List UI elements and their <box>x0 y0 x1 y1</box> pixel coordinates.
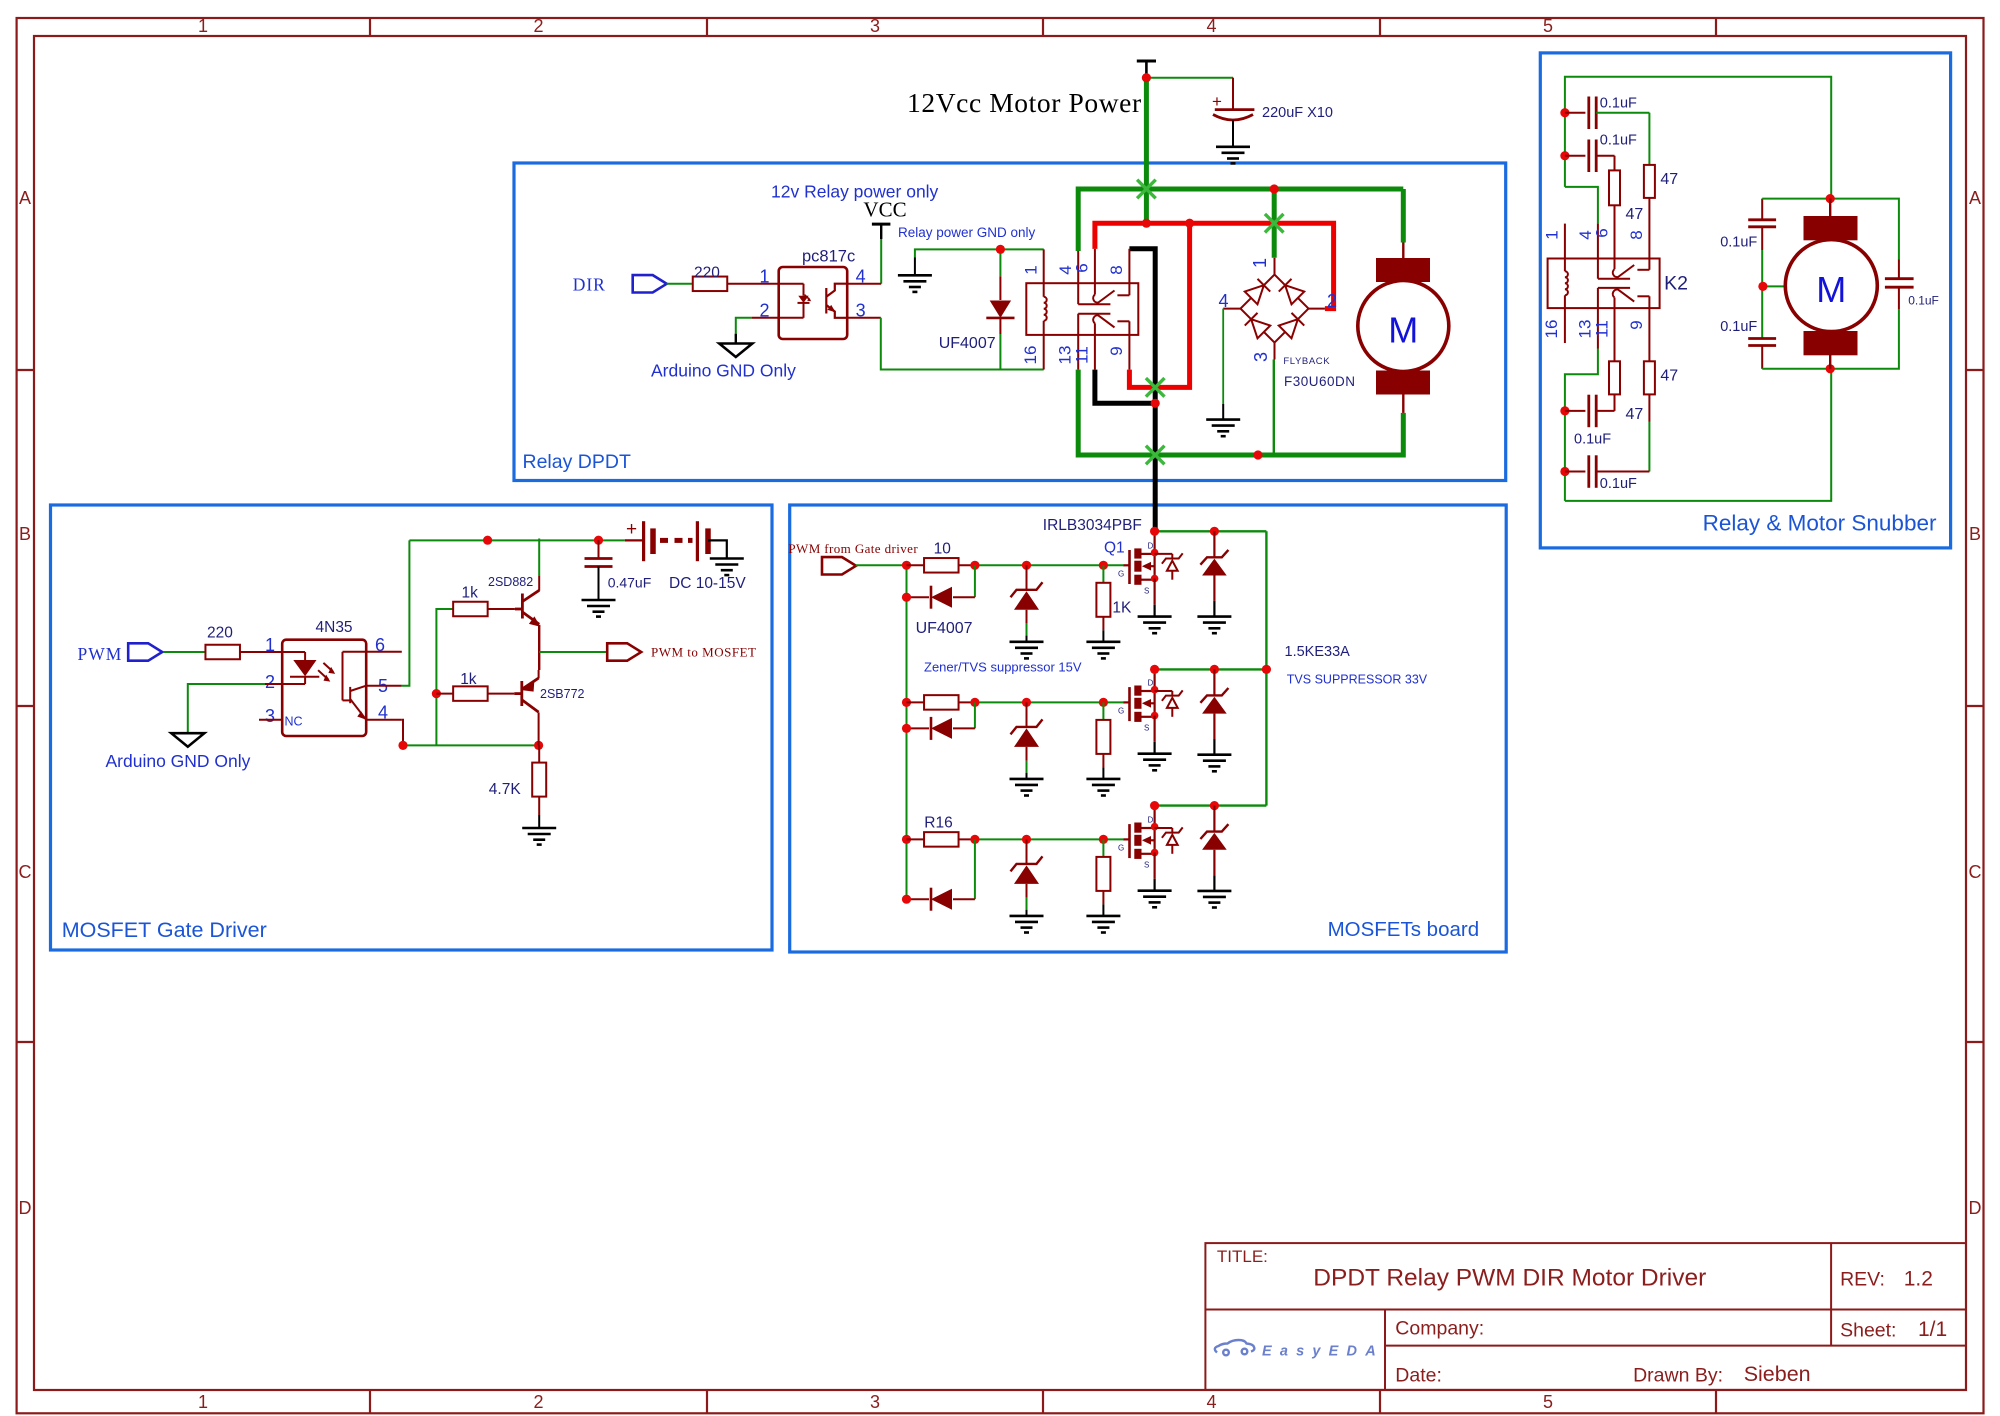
svg-text:G: G <box>1118 569 1124 578</box>
ground (earth) zener stage1 <box>1010 642 1044 659</box>
capacitor 0.1uF s4 <box>1565 471 1586 473</box>
svg-text:12v Relay power only: 12v Relay power only <box>771 182 939 202</box>
junction snubber cap2 <box>1560 151 1569 160</box>
junction red branch <box>1185 219 1194 228</box>
svg-text:1.2: 1.2 <box>1904 1268 1933 1291</box>
resistor 4.7K <box>532 763 546 797</box>
svg-text:DC 10-15V: DC 10-15V <box>669 575 746 592</box>
svg-text:16: 16 <box>1021 346 1040 365</box>
resistor 47 r2 <box>1648 113 1650 165</box>
crossing marker X (12V bus over rail) <box>1137 180 1156 199</box>
crossing marker X (black over red) <box>1146 378 1165 397</box>
capacitor 0.1uF motor-left-bottom <box>1748 337 1776 340</box>
MOSFET Q1 IRLB3034PBF <box>1123 548 1154 584</box>
junction 1K tap stage2 <box>1099 698 1108 707</box>
wire bus to 1k lower <box>436 693 452 695</box>
svg-text:S: S <box>1144 860 1149 869</box>
svg-text:1: 1 <box>1250 258 1270 268</box>
svg-text:2: 2 <box>1327 291 1337 311</box>
svg-text:1: 1 <box>1022 265 1041 274</box>
svg-text:Company:: Company: <box>1395 1318 1484 1340</box>
junction drain row stage3 <box>1150 801 1159 810</box>
svg-text:PWM from Gate driver: PWM from Gate driver <box>788 541 918 556</box>
ground (earth) source stage1 <box>1138 617 1172 634</box>
svg-text:Sheet:: Sheet: <box>1840 1320 1896 1342</box>
wire bottom motor rail (thick green) <box>1078 370 1403 455</box>
svg-text:0.1uF: 0.1uF <box>1574 432 1611 448</box>
MOSFET Q2 IRLB3034PBF <box>1123 686 1154 722</box>
svg-text:PWM to MOSFET: PWM to MOSFET <box>651 645 756 660</box>
svg-text:5: 5 <box>1543 16 1553 36</box>
svg-text:DIR: DIR <box>573 275 606 295</box>
wire 4N35 pin2 to Arduino GND <box>265 683 282 685</box>
resistor 47 r4 <box>1648 308 1650 361</box>
zener/TVS 15V stage3 <box>1026 839 1028 864</box>
svg-text:220uF X10: 220uF X10 <box>1262 105 1333 121</box>
svg-text:1: 1 <box>198 1392 208 1412</box>
svg-text:A: A <box>19 188 31 208</box>
svg-text:0.1uF: 0.1uF <box>1720 235 1757 251</box>
junction TVS tap stage2 <box>1210 665 1219 674</box>
wire 2SB772 collector down <box>538 712 540 745</box>
wire 1k upper to base <box>488 608 515 610</box>
motor M2 frame wires <box>1761 199 1763 220</box>
svg-text:1/1: 1/1 <box>1918 1318 1947 1341</box>
junction red/green 12V <box>1142 219 1151 228</box>
capacitor 0.47uF <box>598 540 600 558</box>
svg-text:PWM: PWM <box>78 644 123 664</box>
junction zener tap stage2 <box>1022 698 1031 707</box>
svg-text:3: 3 <box>870 16 880 36</box>
relay K2 (snubber) <box>1548 259 1660 309</box>
junction drain bus <box>1262 665 1271 674</box>
svg-text:2: 2 <box>533 16 543 36</box>
diode UF4007 (relay coil) <box>999 249 1001 276</box>
wire DIR to resistor <box>667 283 693 285</box>
ground (arrow) Arduino GND 2 <box>171 733 204 747</box>
battery DC 10-15V <box>625 539 644 541</box>
wire source to ground stage3 <box>1153 853 1155 879</box>
body diode stage3 <box>1155 827 1183 853</box>
ground (earth) 4.7K <box>522 828 556 845</box>
junction bottom rail <box>1253 450 1262 459</box>
junction gate bus stage2 <box>902 698 911 707</box>
crossing marker X (black over bottom rail) <box>1146 446 1165 465</box>
resistor 47 r3 <box>1614 308 1616 361</box>
svg-text:3: 3 <box>1251 352 1271 362</box>
wire drain row stage1 <box>1155 530 1267 532</box>
junction gate bus stage3 <box>902 835 911 844</box>
body diode stage1 <box>1155 553 1183 579</box>
TVS diode 1.5KE33A stage3 <box>1213 806 1215 832</box>
svg-text:4: 4 <box>1206 16 1216 36</box>
svg-text:TITLE:: TITLE: <box>1217 1247 1268 1266</box>
svg-text:4: 4 <box>1218 291 1228 311</box>
wire relay power ground rail <box>915 249 1044 257</box>
wire snubber bottom rail <box>1565 369 1831 501</box>
svg-text:0.47uF: 0.47uF <box>608 575 652 591</box>
svg-text:+: + <box>626 519 637 540</box>
svg-text:Q1: Q1 <box>1104 540 1125 557</box>
svg-text:Relay DPDT: Relay DPDT <box>523 451 631 473</box>
wire output node <box>538 625 540 670</box>
svg-text:0.1uF: 0.1uF <box>1720 319 1757 335</box>
capacitor 220uF X10 <box>1232 78 1234 110</box>
svg-text:4N35: 4N35 <box>316 619 353 636</box>
svg-text:8: 8 <box>1107 265 1126 274</box>
svg-text:1: 1 <box>759 267 769 287</box>
svg-text:B: B <box>19 524 31 544</box>
wire drain bus (right vertical) <box>1265 531 1267 805</box>
wire bridge pin3 to bottom rail <box>1273 360 1275 456</box>
junction rail stray <box>483 536 492 545</box>
svg-text:4.7K: 4.7K <box>489 781 522 798</box>
svg-text:D: D <box>1148 678 1154 687</box>
svg-text:16: 16 <box>1542 320 1561 339</box>
wire 4N35 pin6 stub <box>366 651 402 653</box>
resistor 1K stage2 <box>1102 702 1104 720</box>
wire bridge pin4 to ground <box>1222 309 1224 404</box>
svg-text:K2: K2 <box>1664 273 1688 295</box>
svg-text:Zener/TVS suppressor 15V: Zener/TVS suppressor 15V <box>924 660 1082 675</box>
junction base bus <box>432 689 441 698</box>
svg-text:9: 9 <box>1627 320 1646 329</box>
svg-text:11: 11 <box>1593 320 1612 338</box>
junction diode bus stage1 <box>902 593 911 602</box>
junction TVS tap stage3 <box>1210 801 1219 810</box>
wire 12V bus (thick, down into Relay DPDT) <box>1144 78 1149 224</box>
wire diode bypass stage3 <box>974 839 976 899</box>
svg-text:1: 1 <box>1543 230 1562 239</box>
section box MOSFETs board <box>790 505 1506 952</box>
resistor 1K stage1 <box>1102 565 1104 583</box>
power flag 12Vcc (bar symbol) <box>1137 60 1156 63</box>
svg-text:D: D <box>19 1198 32 1218</box>
resistor gate stage3 R16 <box>907 838 925 840</box>
junction motor2 case <box>1758 282 1767 291</box>
junction snubber cap4 <box>1560 467 1569 476</box>
ground (earth) source stage2 <box>1138 754 1172 771</box>
section box Relay DPDT <box>514 163 1506 481</box>
junction TVS tap stage1 <box>1210 527 1219 536</box>
junction bottom rail right <box>534 741 543 750</box>
optocoupler U pc817c <box>779 267 848 339</box>
body diode stage2 <box>1155 690 1183 716</box>
svg-text:+: + <box>1212 92 1222 111</box>
svg-text:47: 47 <box>1660 171 1678 188</box>
svg-text:IRLB3034PBF: IRLB3034PBF <box>1043 517 1142 534</box>
junction source node stage1 <box>1151 575 1159 583</box>
wire output to flag <box>539 651 607 653</box>
diode UF4007 stage1 <box>907 596 930 598</box>
svg-text:4: 4 <box>1206 1392 1216 1412</box>
junction 1K tap stage1 <box>1099 561 1108 570</box>
wire 4.7K to ground <box>538 796 540 815</box>
svg-text:DPDT Relay PWM DIR Motor Drive: DPDT Relay PWM DIR Motor Driver <box>1313 1265 1706 1292</box>
wire gate row stage3 <box>975 838 1123 840</box>
transistor 2SD882 (NPN) <box>515 590 539 624</box>
wire drain pin stage2 <box>1153 669 1155 689</box>
ground (earth) source stage3 <box>1138 891 1172 908</box>
wire base bus (green vertical) <box>436 609 452 745</box>
wire driver bottom rail <box>403 744 539 746</box>
wire 1k lower to base <box>488 693 514 695</box>
svg-text:1: 1 <box>265 635 275 655</box>
junction motor2 top <box>1826 194 1835 203</box>
wire black branch pin11 (thick black) <box>1095 370 1155 404</box>
junction resistor out stage3 <box>970 835 979 844</box>
svg-text:1: 1 <box>198 16 208 36</box>
relay K1 (DPDT) <box>1026 283 1138 335</box>
svg-text:D: D <box>1148 541 1154 550</box>
svg-text:0.1uF: 0.1uF <box>1908 294 1939 308</box>
wire gate bus (left vertical) <box>906 565 908 899</box>
svg-text:0.1uF: 0.1uF <box>1600 133 1637 149</box>
wire motor2 case pin <box>1763 285 1785 287</box>
svg-text:12Vcc Motor Power: 12Vcc Motor Power <box>907 87 1142 118</box>
svg-text:Arduino GND Only: Arduino GND Only <box>106 751 251 771</box>
svg-text:5: 5 <box>1543 1392 1553 1412</box>
junction zener tap stage1 <box>1022 561 1031 570</box>
svg-text:2: 2 <box>533 1392 543 1412</box>
svg-text:47: 47 <box>1660 368 1678 385</box>
svg-text:D: D <box>1969 1198 1982 1218</box>
ground (earth) for 220uF <box>1216 147 1250 164</box>
wire snubber relay pin13 to bottom bus <box>1565 349 1598 501</box>
section box Relay & Motor Snubber <box>1540 53 1950 548</box>
svg-text:UF4007: UF4007 <box>916 620 973 637</box>
junction UF4007 anode <box>996 245 1005 254</box>
junction drain node stage2 <box>1151 686 1159 694</box>
svg-text:M: M <box>1388 310 1418 351</box>
wire pc817c pin2 to Arduino GND <box>752 317 779 319</box>
junction snubber cap3 <box>1560 406 1569 415</box>
svg-text:Arduino GND Only: Arduino GND Only <box>651 361 796 381</box>
svg-text:2SD882: 2SD882 <box>488 575 533 589</box>
svg-text:10: 10 <box>934 541 952 558</box>
motor M1 <box>1402 243 1404 259</box>
resistor gate stage2 <box>907 701 925 703</box>
svg-text:UF4007: UF4007 <box>939 335 996 352</box>
wire VCC to pc817c pin4 <box>880 239 882 284</box>
wire pc817c pin4 <box>847 283 881 285</box>
svg-text:1.5KE33A: 1.5KE33A <box>1285 644 1351 660</box>
resistor 220 (DIR) <box>693 277 728 292</box>
svg-text:M: M <box>1816 269 1846 310</box>
MOSFET Q3 IRLB3034PBF <box>1123 823 1154 859</box>
wire drain row stage2 <box>1155 668 1267 670</box>
ground (earth) zener stage3 <box>1010 916 1044 933</box>
transistor 2SB772 (PNP) <box>514 678 538 712</box>
svg-text:220: 220 <box>694 265 720 282</box>
svg-text:0.1uF: 0.1uF <box>1600 96 1637 112</box>
ground (arrow) Arduino GND <box>719 344 752 358</box>
svg-text:B: B <box>1969 524 1981 544</box>
ground (earth) battery <box>710 559 744 576</box>
wire gate row stage1 <box>975 564 1123 566</box>
junction diode bus stage3 <box>902 895 911 904</box>
junction 1K tap stage3 <box>1099 835 1108 844</box>
junction resistor out stage2 <box>970 698 979 707</box>
wire snubber to relay pin4 <box>1565 187 1598 224</box>
ground (earth) zener stage2 <box>1010 779 1044 796</box>
flag PWM from Gate driver <box>822 557 856 574</box>
ground (earth) bridge <box>1206 420 1240 437</box>
capacitor 0.1uF s2 <box>1565 155 1586 157</box>
motor M2 <box>1829 199 1831 217</box>
svg-text:6: 6 <box>1073 263 1092 272</box>
ground (earth) 1K stage2 <box>1086 779 1120 796</box>
svg-text:R16: R16 <box>924 815 952 832</box>
svg-text:Drawn By:: Drawn By: <box>1633 1365 1723 1387</box>
wire black net pin8 (thick black) <box>1129 249 1155 532</box>
svg-text:G: G <box>1118 706 1124 715</box>
svg-text:MOSFET Gate Driver: MOSFET Gate Driver <box>62 918 267 942</box>
wire PWM to resistor <box>163 651 205 653</box>
ground (earth) 1K stage3 <box>1086 916 1120 933</box>
svg-text:S: S <box>1144 586 1149 595</box>
svg-text:1k: 1k <box>460 671 477 688</box>
wire resistor to 4N35 pin1 <box>240 651 282 653</box>
junction diode bus stage2 <box>902 724 911 733</box>
diode UF4007 stage2 <box>907 727 930 729</box>
junction rail cap <box>594 536 603 545</box>
junction drain node stage1 <box>1151 549 1159 557</box>
svg-text:3: 3 <box>870 1392 880 1412</box>
bridge rectifier F30U60DN <box>1223 258 1325 360</box>
wire 4N35 pin4 down <box>366 719 402 721</box>
capacitor 0.1uF s1 <box>1565 112 1586 114</box>
svg-text:Relay power GND only: Relay power GND only <box>898 225 1036 240</box>
svg-text:TVS SUPPRESSOR 33V: TVS SUPPRESSOR 33V <box>1287 673 1428 687</box>
ground (earth) TVS stage2 <box>1197 755 1231 772</box>
resistor 1K stage3 <box>1102 839 1104 857</box>
svg-text:G: G <box>1118 843 1124 852</box>
wire collector node to 4.7K <box>538 745 540 763</box>
wire 12V rail (thick green horizontal) <box>1078 187 1403 192</box>
svg-text:MOSFETs board: MOSFETs board <box>1328 918 1480 941</box>
junction bottom rail left <box>398 741 407 750</box>
junction drain row stage1 <box>1150 527 1159 536</box>
wire 4N35 pin5 to rail <box>366 685 402 687</box>
wire drain pin stage1 <box>1153 531 1155 552</box>
junction resistor out stage1 <box>970 561 979 570</box>
svg-text:6: 6 <box>1593 228 1612 237</box>
wire drain row stage3 <box>1155 804 1267 806</box>
svg-text:8: 8 <box>1627 230 1646 239</box>
wire gate row stage2 <box>975 701 1123 703</box>
resistor 1k lower <box>453 686 488 701</box>
section box MOSFET Gate Driver <box>51 505 773 950</box>
wire input flag to bus <box>856 564 907 566</box>
svg-text:S: S <box>1144 723 1149 732</box>
svg-text:Sieben: Sieben <box>1744 1362 1811 1386</box>
svg-text:C: C <box>19 862 32 882</box>
optocoupler 4N35 <box>282 640 366 736</box>
svg-text:3: 3 <box>265 706 275 726</box>
svg-text:D: D <box>1148 815 1154 824</box>
svg-text:Relay & Motor Snubber: Relay & Motor Snubber <box>1703 511 1937 536</box>
svg-text:0.1uF: 0.1uF <box>1600 476 1637 492</box>
resistor 47 r1 <box>1614 156 1616 171</box>
svg-text:220: 220 <box>207 625 233 642</box>
wire driver top rail <box>409 539 624 541</box>
wire red net pin6/bridge (thick red) <box>1095 223 1334 308</box>
ground (earth) 0.47uF <box>582 600 616 617</box>
EasyEDA logo <box>1215 1340 1255 1355</box>
svg-text:2SB772: 2SB772 <box>540 687 585 701</box>
capacitor 0.1uF motor-left-top <box>1748 218 1776 221</box>
wire rail to bridge pin1 (thick green) <box>1272 189 1277 258</box>
svg-text:1k: 1k <box>462 585 479 602</box>
TVS diode 1.5KE33A stage2 <box>1213 669 1215 695</box>
junction snubber cap1 <box>1560 108 1569 117</box>
wire drain pin stage3 <box>1153 806 1155 827</box>
capacitor 0.1uF motor-right <box>1885 277 1914 280</box>
svg-text:F30U60DN: F30U60DN <box>1284 374 1356 389</box>
junction 12V node <box>1142 73 1151 82</box>
zener/TVS 15V stage2 <box>1026 702 1028 727</box>
junction black net <box>1151 399 1160 408</box>
svg-text:A: A <box>1969 188 1981 208</box>
wire 4N35 pin3 stub <box>259 719 282 721</box>
svg-text:Date:: Date: <box>1395 1365 1442 1387</box>
svg-text:VCC: VCC <box>863 198 906 222</box>
svg-text:C: C <box>1969 862 1982 882</box>
svg-text:1K: 1K <box>1112 600 1132 617</box>
wire rail to relay pin4 (thick green) <box>1076 187 1081 252</box>
junction motor2 bottom <box>1826 364 1835 373</box>
ground (earth) TVS stage3 <box>1197 891 1231 908</box>
title block <box>1205 1243 1966 1390</box>
ground (earth) 1K stage1 <box>1086 642 1120 659</box>
flag PWM to MOSFET <box>607 643 641 660</box>
svg-text:REV:: REV: <box>1840 1269 1885 1291</box>
junction source node stage2 <box>1151 712 1159 720</box>
junction zener tap stage3 <box>1022 835 1031 844</box>
relay K2 pin stubs <box>1565 224 1598 349</box>
junction source node stage3 <box>1151 849 1159 857</box>
junction drain node stage3 <box>1151 823 1159 831</box>
resistor 1k upper <box>453 602 488 617</box>
diode UF4007 stage3 <box>907 898 930 900</box>
svg-text:47: 47 <box>1626 406 1644 423</box>
wire red branch to pin9 (thick red) <box>1129 223 1189 387</box>
resistor 220 (PWM) <box>205 645 240 660</box>
junction drain row stage2 <box>1150 665 1159 674</box>
svg-text:pc817c: pc817c <box>802 248 855 266</box>
zener/TVS 15V stage1 <box>1026 565 1028 590</box>
ground (earth) TVS stage1 <box>1197 617 1231 634</box>
svg-text:2: 2 <box>265 672 275 692</box>
wire diode bypass stage2 <box>974 702 976 728</box>
capacitor 0.1uF s3 <box>1565 410 1586 412</box>
svg-text:9: 9 <box>1107 346 1126 355</box>
relay K1 pin stubs <box>1044 249 1130 370</box>
TVS diode 1.5KE33A stage1 <box>1213 531 1215 557</box>
crossing marker X (bridge wire over red) <box>1265 214 1284 233</box>
junction rail/bridge <box>1270 184 1279 193</box>
resistor gate stage1 10 <box>907 564 925 566</box>
wire snubber top rail <box>1565 77 1831 199</box>
wire source to ground stage2 <box>1153 716 1155 742</box>
wire diode bypass stage1 <box>974 565 976 597</box>
wire source to ground stage1 <box>1153 579 1155 605</box>
svg-text:11: 11 <box>1073 346 1092 364</box>
svg-text:47: 47 <box>1626 206 1644 223</box>
svg-text:FLYBACK: FLYBACK <box>1283 356 1330 367</box>
svg-text:NC: NC <box>285 715 303 729</box>
